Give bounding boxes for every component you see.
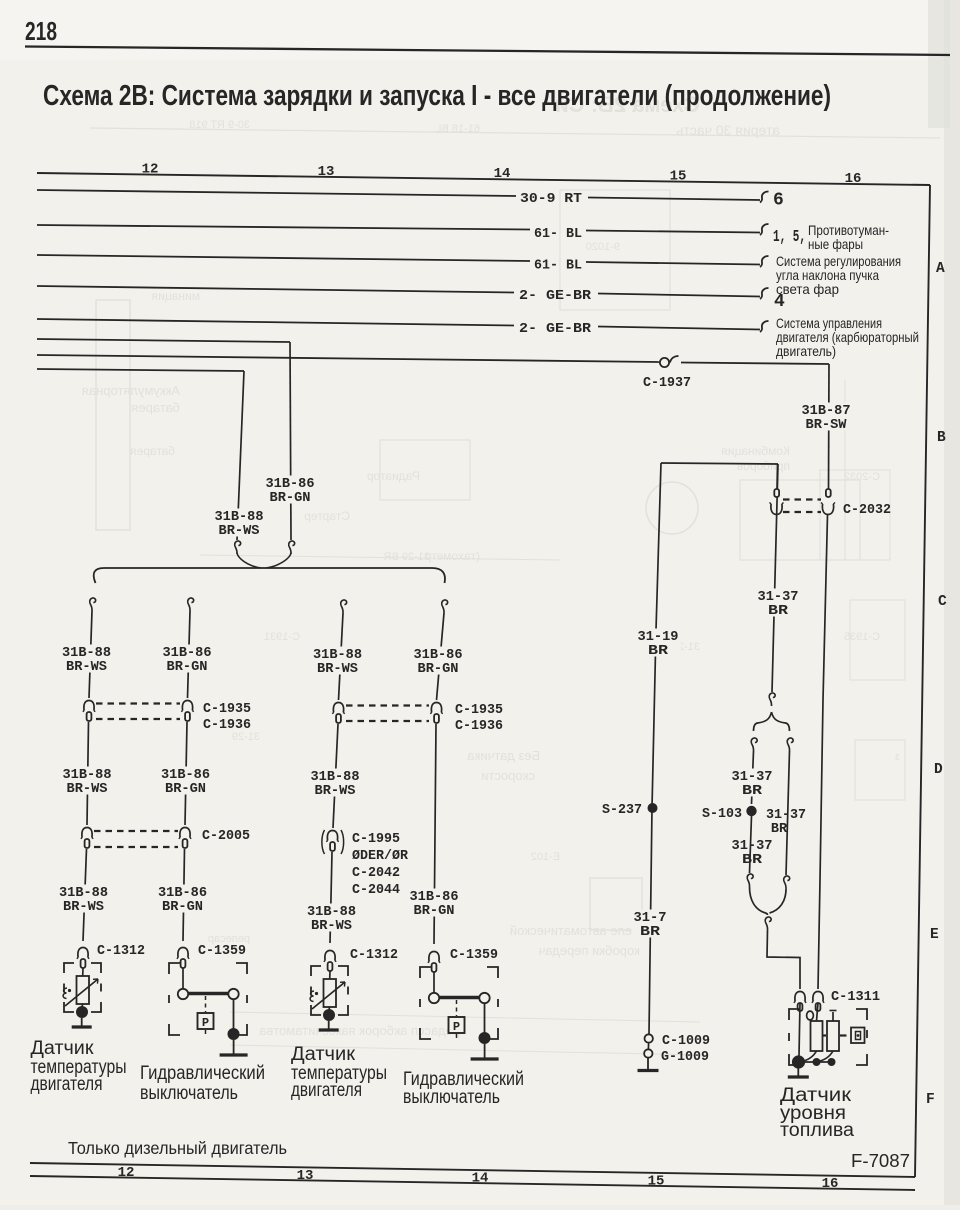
svg-text:13: 13: [318, 164, 335, 180]
svg-text:C-1936: C-1936: [203, 718, 251, 733]
svg-text:двигателя: двигателя: [31, 1074, 103, 1095]
svg-text:31-29 BR: 31-29 BR: [383, 551, 430, 563]
svg-text:S-237: S-237: [602, 803, 642, 818]
svg-text:C-1359: C-1359: [198, 944, 246, 959]
svg-text:BR-WS: BR-WS: [63, 900, 104, 915]
svg-text:31B-86: 31B-86: [163, 646, 212, 661]
svg-text:C-2032: C-2032: [844, 471, 880, 483]
svg-text:30-9 RT: 30-9 RT: [520, 192, 582, 207]
svg-text:выключатель: выключатель: [403, 1087, 500, 1108]
svg-text:A: A: [936, 261, 945, 277]
svg-text:C-1935: C-1935: [203, 702, 251, 717]
svg-text:BR-GN: BR-GN: [270, 491, 311, 506]
svg-text:9-1020: 9-1020: [586, 241, 620, 253]
svg-text:13: 13: [297, 1168, 314, 1184]
svg-text:61- BL: 61- BL: [534, 227, 582, 242]
svg-text:BR: BR: [742, 784, 763, 799]
svg-text:E: E: [930, 927, 939, 943]
svg-text:31B-86: 31B-86: [266, 477, 315, 492]
svg-text:С-1935: С-1935: [844, 631, 880, 643]
svg-text:BR: BR: [771, 822, 788, 837]
svg-text:BR-GN: BR-GN: [414, 904, 455, 919]
svg-text:31-7: 31-7: [634, 911, 667, 926]
svg-text:Комбинация: Комбинация: [721, 444, 790, 458]
svg-text:BR-WS: BR-WS: [315, 784, 356, 799]
svg-text:ные фары: ные фары: [808, 236, 863, 252]
svg-text:C-2042: C-2042: [352, 866, 400, 881]
svg-text:света фар: света фар: [776, 281, 839, 297]
svg-text:C-2044: C-2044: [352, 883, 400, 898]
svg-text:4: 4: [774, 292, 785, 312]
svg-text:BR-WS: BR-WS: [311, 919, 352, 934]
svg-text:Стартер: Стартер: [304, 509, 350, 523]
svg-text:15: 15: [648, 1173, 665, 1189]
svg-text:BR: BR: [648, 644, 669, 659]
svg-text:BR-GN: BR-GN: [418, 662, 459, 677]
svg-text:31B-86: 31B-86: [158, 886, 207, 901]
svg-text:C-1312: C-1312: [350, 948, 398, 963]
svg-text:Без датчика: Без датчика: [466, 748, 540, 763]
svg-text:31-37: 31-37: [758, 590, 799, 605]
svg-text:31B-87: 31B-87: [802, 404, 851, 419]
svg-text:C-1312: C-1312: [97, 944, 145, 959]
svg-text:6: 6: [773, 191, 784, 211]
svg-text:14: 14: [472, 1171, 489, 1187]
svg-text:батарея: батарея: [131, 400, 180, 415]
svg-text:C-1935: C-1935: [455, 703, 503, 718]
svg-text:топлива: топлива: [780, 1120, 854, 1141]
svg-text:приборов: приборов: [737, 459, 790, 473]
svg-text:31-37: 31-37: [766, 808, 806, 823]
svg-text:BR-GN: BR-GN: [167, 660, 208, 675]
svg-text:Е-102: Е-102: [531, 851, 560, 863]
svg-text:2- GE-BR: 2- GE-BR: [519, 289, 592, 304]
svg-text:батарея: батарея: [130, 444, 175, 458]
svg-text:BR-WS: BR-WS: [317, 662, 358, 677]
svg-text:31B-88: 31B-88: [307, 905, 356, 920]
svg-text:31B-88: 31B-88: [313, 648, 362, 663]
svg-text:BR-SW: BR-SW: [806, 418, 848, 433]
svg-text:C-1995: C-1995: [352, 832, 400, 847]
svg-text:F: F: [926, 1092, 935, 1108]
svg-text:Радиатор: Радиатор: [367, 469, 420, 483]
svg-text:ØDER/ØR: ØDER/ØR: [352, 849, 409, 864]
svg-text:BR: BR: [742, 853, 763, 868]
svg-text:BR-GN: BR-GN: [162, 900, 203, 915]
svg-text:D: D: [934, 762, 943, 778]
svg-text:BR-WS: BR-WS: [219, 524, 260, 539]
svg-text:12: 12: [118, 1165, 135, 1181]
svg-text:31B-88: 31B-88: [62, 646, 111, 661]
svg-text:31B-88: 31B-88: [59, 886, 108, 901]
svg-text:31B-86: 31B-86: [410, 890, 459, 905]
svg-text:C-1937: C-1937: [643, 376, 691, 391]
svg-text:16: 16: [822, 1176, 839, 1192]
svg-text:218: 218: [25, 16, 57, 46]
svg-text:Датчик: Датчик: [31, 1038, 95, 1059]
svg-text:31B-86: 31B-86: [161, 768, 210, 783]
svg-text:C-2005: C-2005: [202, 829, 250, 844]
svg-text:Только дизельный двигатель: Только дизельный двигатель: [68, 1138, 287, 1158]
svg-text:31B-88: 31B-88: [215, 510, 264, 525]
svg-text:BR-WS: BR-WS: [67, 782, 108, 797]
svg-text:31-37: 31-37: [732, 839, 773, 854]
svg-text:P: P: [202, 1016, 209, 1030]
svg-text:Гидравлический: Гидравлический: [140, 1063, 265, 1084]
svg-text:31B-86: 31B-86: [414, 648, 463, 663]
svg-text:14: 14: [494, 166, 511, 182]
svg-text:(тахометр: (тахометр: [424, 549, 480, 563]
svg-text:Схема 2В: Система зарядки и за: Схема 2В: Система зарядки и запуска I - …: [43, 80, 831, 112]
svg-text:BR: BR: [768, 604, 789, 619]
svg-text:з: з: [895, 751, 900, 763]
svg-text:16: 16: [845, 171, 862, 187]
svg-text:F-7087: F-7087: [851, 1150, 910, 1171]
svg-text:BR: BR: [640, 925, 661, 940]
svg-text:P: P: [453, 1020, 460, 1034]
svg-text:30-9 RT 918: 30-9 RT 918: [189, 119, 250, 131]
svg-text:C-1936: C-1936: [455, 719, 503, 734]
svg-text:B: B: [937, 430, 946, 446]
svg-text:61-18 BL: 61-18 BL: [435, 123, 480, 135]
svg-text:С-1931: С-1931: [264, 631, 300, 643]
svg-text:редассп акборок яаксечитамотва: редассп акборок яаксечитамотва: [259, 1023, 460, 1038]
svg-text:минация: минация: [152, 289, 200, 303]
svg-text:31B-88: 31B-88: [311, 770, 360, 785]
svg-text:C-2032: C-2032: [843, 503, 891, 518]
svg-text:15: 15: [670, 169, 687, 185]
svg-text:BR-GN: BR-GN: [165, 782, 206, 797]
svg-text:31-37: 31-37: [732, 770, 773, 785]
svg-text:1, 5,: 1, 5,: [773, 227, 806, 246]
svg-text:Датчик: Датчик: [291, 1044, 356, 1065]
svg-text:S-103: S-103: [702, 807, 742, 822]
svg-text:C-1009: C-1009: [662, 1034, 710, 1049]
svg-text:двигателя: двигателя: [291, 1080, 362, 1101]
svg-text:C-1311: C-1311: [831, 990, 880, 1005]
svg-text:скорости: скорости: [481, 768, 535, 783]
svg-text:61- BL: 61- BL: [534, 259, 582, 274]
svg-text:31B-88: 31B-88: [63, 768, 112, 783]
svg-text:2- GE-BR: 2- GE-BR: [519, 322, 592, 337]
svg-text:12: 12: [142, 162, 159, 178]
svg-text:G-1009: G-1009: [661, 1050, 709, 1065]
svg-text:BR-WS: BR-WS: [66, 660, 107, 675]
svg-text:выключатель: выключатель: [140, 1083, 238, 1104]
svg-text:31-19: 31-19: [638, 630, 679, 645]
svg-text:коробки передач: коробки передач: [539, 943, 640, 958]
svg-text:двигатель): двигатель): [776, 343, 836, 359]
svg-text:C-1359: C-1359: [450, 948, 498, 963]
svg-text:C: C: [938, 594, 947, 610]
